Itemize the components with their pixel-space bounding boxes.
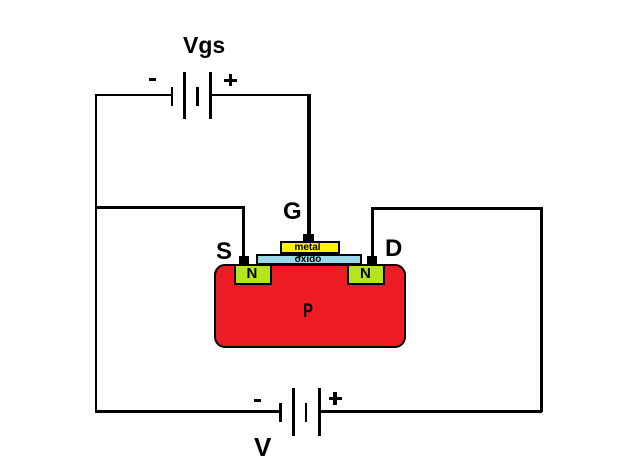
battery Vgs: plate long 1 xyxy=(183,72,186,120)
wire: top-left horizontal from left rail to Vgs battery minus plate xyxy=(95,94,172,97)
accent of oxido xyxy=(297,255,301,258)
label S xyxy=(216,240,232,264)
wire: drain horizontal to right rail xyxy=(371,207,543,210)
battery V: plate long 1 xyxy=(292,388,295,436)
battery Vgs: plate short 1 xyxy=(171,87,174,106)
wire: right vertical rail xyxy=(540,207,543,412)
label plus (V battery) xyxy=(329,397,342,400)
battery V: plate long 2 xyxy=(318,388,321,436)
label Vgs xyxy=(183,34,225,57)
transistor body: P substrate xyxy=(214,264,406,348)
label minus (Vgs battery) xyxy=(149,78,156,81)
battery Vgs: plate long 2 xyxy=(209,72,212,120)
label N right xyxy=(360,266,371,281)
oxide layer xyxy=(256,254,362,266)
wire: source horizontal branch xyxy=(95,206,243,209)
label minus (V battery) xyxy=(254,399,261,402)
drain contact pad xyxy=(367,256,377,265)
battery V: plate short 1 xyxy=(279,403,282,422)
battery Vgs: plate short 2 xyxy=(196,87,199,106)
N region right xyxy=(347,264,385,285)
label V xyxy=(254,434,271,460)
wire: left vertical rail xyxy=(95,94,98,413)
wire: top-right horizontal from Vgs battery plus plate to gate corner xyxy=(210,94,310,97)
wire: source vertical drop xyxy=(242,206,245,258)
wire: bottom-right horizontal from V battery xyxy=(319,410,542,413)
label G xyxy=(283,200,302,224)
wire: drain vertical drop xyxy=(371,207,374,258)
gate contact pad on metal xyxy=(303,234,315,242)
battery V: plate short 2 xyxy=(305,403,308,422)
label metal xyxy=(278,243,338,253)
wire: gate vertical (thick) xyxy=(307,94,311,241)
label oxido xyxy=(255,255,361,265)
label N left xyxy=(247,266,258,281)
N region left xyxy=(234,264,272,285)
label D xyxy=(385,237,402,261)
source contact pad xyxy=(239,256,249,265)
label plus (Vgs battery) xyxy=(224,79,237,82)
metal layer xyxy=(280,241,340,254)
wire: bottom-left horizontal to V battery xyxy=(95,410,280,413)
label P xyxy=(303,302,313,321)
